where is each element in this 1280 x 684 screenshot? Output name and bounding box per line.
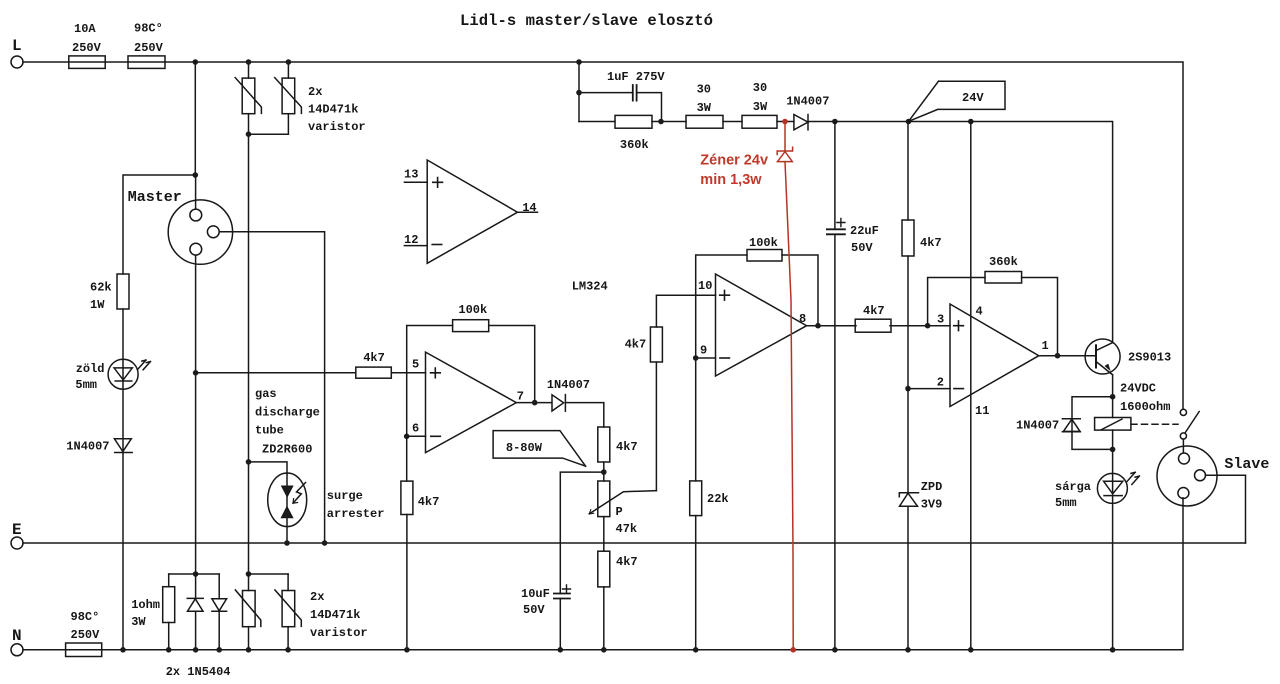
node D8 to N rail: [216, 647, 222, 653]
svg-text:2: 2: [937, 376, 944, 390]
svg-text:30: 30: [697, 83, 711, 97]
svg-text:2S9013: 2S9013: [1128, 351, 1171, 365]
resistor 100k feedback U1C: [747, 250, 782, 262]
node divider to N rail: [601, 647, 607, 653]
wire feedback vertical U1C: [696, 255, 747, 358]
node relay bottom: [1110, 447, 1116, 453]
zener ZPD 3V9: [899, 389, 918, 650]
LED D6 sarga: [1097, 449, 1139, 649]
svg-text:LM324: LM324: [572, 280, 608, 294]
svg-text:100k: 100k: [749, 236, 778, 250]
terminal E: [11, 537, 23, 549]
wire output pin8: [807, 325, 856, 327]
svg-text:ZPD: ZPD: [921, 480, 943, 494]
pin 13 stub: [404, 181, 427, 183]
varistor RV3: [235, 574, 260, 650]
socket Slave pin N: [1178, 488, 1189, 499]
node pin6 junction: [404, 434, 410, 440]
node relay top: [1110, 394, 1116, 400]
node master top junction: [193, 172, 199, 178]
wire 24V rail: [808, 122, 1113, 343]
socket Slave pin E: [1195, 470, 1246, 543]
svg-text:varistor: varistor: [308, 120, 366, 134]
svg-text:1600ohm: 1600ohm: [1120, 400, 1170, 414]
zener Zener24v red: [777, 122, 793, 650]
node 22uF tap: [832, 119, 838, 125]
svg-text:varistor: varistor: [310, 626, 368, 640]
wire pin9 stub: [696, 357, 716, 359]
svg-text:4k7: 4k7: [863, 304, 885, 318]
node zener tap red: [782, 119, 788, 125]
svg-text:L: L: [12, 37, 22, 55]
node pin9 junction: [693, 355, 699, 361]
potentiometer P 47k: [589, 481, 656, 551]
surge arrester GDT: [268, 473, 307, 543]
node 4k7 to N rail: [404, 647, 410, 653]
wire sense to opamp1: [196, 372, 356, 374]
node L-F junction: [193, 59, 199, 65]
node zener to N rail red: [790, 647, 796, 653]
node output U1C: [815, 323, 821, 329]
svg-text:ZD2R600: ZD2R600: [262, 443, 312, 457]
wire 4k7 to pot: [603, 462, 605, 481]
diode D8 1N5404 down: [212, 574, 227, 650]
svg-text:250V: 250V: [71, 628, 101, 642]
node LED to N rail: [1110, 647, 1116, 653]
svg-text:4k7: 4k7: [418, 495, 440, 509]
op-amp U1C: [716, 274, 807, 376]
svg-text:3W: 3W: [753, 100, 768, 114]
wire feedback to output U1A: [1022, 278, 1058, 356]
svg-text:1ohm: 1ohm: [131, 598, 160, 612]
svg-text:100k: 100k: [458, 303, 487, 317]
svg-text:8-80W: 8-80W: [506, 441, 543, 455]
minus sign U1B: [431, 435, 441, 437]
svg-text:1N4007: 1N4007: [786, 95, 829, 109]
node D7 to N rail: [193, 647, 199, 653]
node RV1 top: [246, 59, 252, 65]
diode D3 1N4007: [552, 395, 565, 412]
socket Master pin E: [207, 226, 324, 543]
svg-text:Slave: Slave: [1224, 456, 1269, 473]
transistor Q1 2S9013: [1085, 339, 1120, 397]
dashed link relay to switch: [1131, 423, 1178, 425]
relay coil K1: [1095, 397, 1131, 450]
svg-text:47k: 47k: [616, 522, 638, 536]
svg-text:22k: 22k: [707, 492, 729, 506]
svg-text:4k7: 4k7: [616, 555, 638, 569]
resistor 62k 1W: [117, 274, 129, 309]
wire L tap down: [578, 62, 580, 122]
svg-text:2x: 2x: [310, 590, 324, 604]
minus sign U1A: [954, 388, 964, 390]
svg-text:discharge: discharge: [255, 406, 320, 420]
plus sign 10uF: [563, 585, 571, 593]
svg-text:3V9: 3V9: [921, 498, 943, 512]
pin 14 stub: [518, 211, 538, 213]
svg-text:1N4007: 1N4007: [66, 440, 109, 454]
op-amp U1D unused: [427, 160, 517, 263]
wire pin2 stub: [908, 388, 950, 390]
wire to indicator branch: [123, 175, 195, 274]
svg-text:14D471k: 14D471k: [308, 103, 358, 117]
svg-text:50V: 50V: [851, 241, 873, 255]
node GDT branch junction: [246, 459, 252, 465]
svg-text:2x 1N5404: 2x 1N5404: [166, 665, 231, 679]
svg-text:7: 7: [517, 390, 524, 404]
node 1uF 360k junction: [658, 119, 664, 125]
svg-text:14: 14: [522, 201, 536, 215]
wire output pin7: [516, 402, 551, 404]
wire to pin3: [890, 325, 950, 327]
svg-text:50V: 50V: [523, 603, 545, 617]
fuse F1 10A 250V: [69, 56, 105, 69]
node sense junction: [193, 370, 199, 376]
svg-text:250V: 250V: [72, 41, 102, 55]
node GDT to E rail: [284, 540, 290, 546]
terminal N: [11, 644, 23, 656]
resistor 4k7 interstage: [855, 319, 891, 332]
svg-text:8: 8: [799, 312, 806, 326]
svg-text:N: N: [12, 627, 22, 645]
svg-text:sárga: sárga: [1055, 480, 1091, 494]
wire GDT branch: [249, 462, 288, 474]
capacitor 22uF 50V: [827, 122, 845, 650]
diode D7 1N5404 up: [187, 574, 203, 650]
plus sign U1B: [431, 368, 441, 378]
node led chain to N rail: [120, 647, 126, 653]
svg-text:62k: 62k: [90, 281, 112, 295]
svg-text:min 1,3w: min 1,3w: [700, 172, 762, 188]
svg-text:11: 11: [975, 404, 989, 418]
plus sign U1C: [720, 290, 730, 300]
switch S1: [1180, 409, 1199, 452]
svg-text:4k7: 4k7: [920, 236, 942, 250]
svg-text:1: 1: [1042, 339, 1049, 353]
svg-text:Master: Master: [128, 189, 182, 206]
svg-text:22uF: 22uF: [850, 224, 879, 238]
plus sign U1D: [433, 178, 443, 188]
minus sign U1D: [432, 244, 442, 246]
varistor RV1: [235, 62, 261, 134]
svg-text:P: P: [616, 505, 623, 519]
resistor 1ohm 3W: [163, 574, 175, 650]
svg-text:surge: surge: [327, 489, 363, 503]
socket Slave outline: [1157, 446, 1217, 506]
wire pin4 pin11 supply: [970, 122, 972, 650]
resistor 4k7 divider bottom: [598, 551, 610, 650]
svg-text:360k: 360k: [620, 138, 649, 152]
svg-text:6: 6: [412, 422, 419, 436]
svg-text:5: 5: [412, 358, 419, 372]
wire L rail: [23, 62, 1183, 409]
svg-text:10: 10: [698, 279, 712, 293]
fuse F2 98C 250V: [128, 56, 165, 69]
svg-text:10A: 10A: [74, 22, 96, 36]
svg-text:2x: 2x: [308, 85, 322, 99]
plus sign U1A: [954, 321, 964, 331]
resistor 22k: [690, 358, 702, 650]
wire feedback to output U1B: [489, 326, 535, 403]
svg-text:4k7: 4k7: [363, 351, 385, 365]
node 24V flag tap: [906, 119, 912, 125]
resistor 4k7 pin10: [650, 295, 715, 362]
node RV3 to N rail: [246, 647, 252, 653]
fuse F3 98C 250V: [66, 643, 102, 657]
node pin4 tap: [968, 119, 974, 125]
wire E rail: [23, 542, 1246, 544]
node 1ohm to N rail: [166, 647, 172, 653]
wire output pin1: [1039, 355, 1096, 357]
svg-text:5mm: 5mm: [75, 378, 97, 392]
svg-text:1N4007: 1N4007: [1016, 419, 1059, 433]
node pin3 junction: [925, 323, 931, 329]
LED D1 zold: [108, 359, 150, 389]
socket Slave pin L: [1179, 453, 1190, 464]
node ZPD to N rail: [905, 647, 911, 653]
wire D3 to divider: [566, 403, 604, 427]
socket Master outline: [168, 200, 232, 264]
node L rail tap: [576, 59, 582, 65]
wire feedback vertical U1B: [407, 326, 453, 437]
terminal L: [11, 56, 23, 68]
wire pin6 stub: [407, 435, 426, 437]
resistor 4k7 divider top: [598, 427, 610, 462]
plus sign 22uF: [837, 219, 845, 227]
socket Master pin N: [190, 243, 202, 574]
svg-text:1uF 275V: 1uF 275V: [607, 70, 665, 84]
wire led chain: [122, 309, 124, 650]
node output U1A: [1055, 353, 1061, 359]
wire L drop to master: [194, 62, 196, 175]
node output U1B: [532, 400, 538, 406]
svg-text:3W: 3W: [131, 615, 146, 629]
svg-text:arrester: arrester: [327, 507, 385, 521]
node divider junction: [601, 469, 607, 475]
svg-text:Lidl-s master/slave elosztó: Lidl-s master/slave elosztó: [460, 12, 713, 30]
wire varistor bracket: [249, 573, 289, 575]
svg-text:98C°: 98C°: [134, 22, 163, 36]
node master E pin to rail: [322, 540, 328, 546]
svg-text:14D471k: 14D471k: [310, 608, 360, 622]
svg-text:24V: 24V: [962, 91, 984, 105]
diode D2 1N4007: [114, 439, 132, 453]
svg-text:5mm: 5mm: [1055, 496, 1077, 510]
svg-text:E: E: [12, 521, 22, 539]
svg-text:30: 30: [753, 81, 767, 95]
resistor 30 3W second: [742, 115, 794, 128]
svg-text:zöld: zöld: [76, 362, 105, 376]
node 22uF to N rail: [832, 647, 838, 653]
resistor 360k feedback: [985, 272, 1022, 284]
varistor RV2: [249, 62, 302, 134]
socket Master pin L: [190, 175, 202, 221]
svg-text:13: 13: [404, 168, 418, 182]
resistor 4k7 pin2 pullup: [902, 122, 914, 389]
resistor 360k snubber: [579, 115, 686, 128]
wire pot wiper to pin10: [655, 362, 657, 491]
resistor 100k feedback U1B: [453, 320, 489, 332]
op-amp U1B: [426, 352, 517, 453]
resistor 4k7 input pin5: [356, 367, 392, 378]
svg-text:10uF: 10uF: [521, 587, 550, 601]
varistor RV4: [275, 574, 301, 650]
minus sign U1C: [720, 357, 730, 359]
resistor 30 3W first: [686, 115, 742, 128]
svg-text:3: 3: [937, 313, 944, 327]
resistor 4k7 below pin6: [401, 436, 413, 650]
op-amp U1A: [950, 304, 1039, 407]
svg-text:24VDC: 24VDC: [1120, 382, 1156, 396]
wire N rail: [23, 498, 1183, 650]
wire varistor chain down to GDT: [248, 134, 250, 574]
node varistor bottom junction: [246, 131, 252, 137]
callout 8-80W: [493, 431, 585, 467]
svg-text:tube: tube: [255, 424, 284, 438]
wire pin5: [391, 372, 425, 374]
capacitor 10uF 50V: [554, 472, 604, 650]
node varistor bottom bracket: [246, 571, 252, 577]
node bracket junction: [193, 571, 199, 577]
capacitor 1uF 275V: [576, 85, 661, 122]
node pin11 to N rail: [968, 647, 974, 653]
node 22k to N rail: [693, 647, 699, 653]
svg-text:1N4007: 1N4007: [547, 378, 590, 392]
node RV4 to N rail: [285, 647, 291, 653]
svg-text:98C°: 98C°: [71, 610, 100, 624]
svg-text:12: 12: [404, 233, 418, 247]
diode D5 1N4007 flyback: [1062, 397, 1112, 450]
wire feedback vertical U1A: [928, 278, 985, 326]
svg-text:4k7: 4k7: [625, 338, 647, 352]
svg-text:1W: 1W: [90, 298, 105, 312]
node RV2 top: [286, 59, 292, 65]
svg-text:Zéner 24v: Zéner 24v: [700, 153, 768, 169]
svg-text:360k: 360k: [989, 255, 1018, 269]
svg-text:gas: gas: [255, 387, 277, 401]
diode D4 1N4007: [794, 115, 808, 130]
svg-text:250V: 250V: [134, 41, 164, 55]
wire feedback to output U1C: [782, 255, 818, 326]
svg-text:3W: 3W: [697, 101, 712, 115]
wire bracket 1ohm diodes: [169, 573, 220, 575]
node 10uF to N rail: [558, 647, 564, 653]
svg-text:9: 9: [700, 344, 707, 358]
flag 24V: [909, 81, 1006, 121]
pin 12 stub: [404, 245, 427, 247]
svg-text:4k7: 4k7: [616, 440, 638, 454]
node pin2 junction: [905, 386, 911, 392]
svg-text:4: 4: [976, 305, 983, 319]
